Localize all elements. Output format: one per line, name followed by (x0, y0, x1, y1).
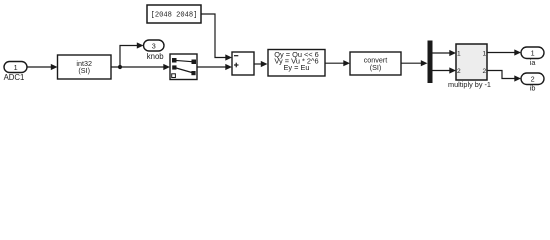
inport ADC1 (4, 62, 27, 73)
wire shift to convert (325, 62, 345, 64)
block convert (SI) (350, 52, 401, 75)
svg-text:ib: ib (530, 84, 536, 93)
wire switch to sum plus input (197, 66, 227, 68)
svg-text:knob: knob (147, 52, 165, 61)
svg-text:(SI): (SI) (370, 63, 382, 72)
shift arithmetic block (268, 50, 325, 77)
manual switch block (170, 54, 197, 80)
svg-text:1: 1 (482, 50, 486, 57)
wire int32 to switch (111, 66, 165, 68)
svg-text:multiply by -1: multiply by -1 (448, 80, 491, 89)
wire branch to knob (120, 46, 138, 68)
svg-text:Ey = Eu: Ey = Eu (283, 63, 309, 72)
demux (428, 41, 433, 84)
svg-text:(SI): (SI) (78, 66, 90, 75)
svg-text:2: 2 (482, 68, 486, 75)
wire constant to sum minus input (201, 14, 227, 58)
svg-text:2: 2 (457, 68, 461, 75)
sum (subtract) block (232, 52, 254, 75)
svg-text:ADC1: ADC1 (4, 73, 25, 82)
subsystem multiply by -1 (456, 44, 487, 80)
wire subsystem out2 to ib (487, 71, 516, 79)
wire sum to shift block (254, 63, 263, 65)
svg-text:2: 2 (531, 75, 535, 84)
wire convert to demux (401, 62, 422, 64)
outport knob (144, 40, 165, 51)
svg-text:1: 1 (457, 50, 461, 57)
svg-text:1: 1 (14, 63, 18, 72)
svg-text:ia: ia (530, 58, 537, 67)
junction dot (118, 65, 122, 69)
block int32 (SI) data type conversion (58, 55, 112, 79)
outport ia (521, 47, 544, 59)
svg-text:1: 1 (531, 49, 535, 58)
constant [2048 2048] (147, 5, 201, 23)
outport ib (521, 73, 544, 85)
wire subsystem out1 to ia (487, 52, 516, 54)
svg-text:[2048 2048]: [2048 2048] (151, 12, 198, 20)
wire demux out1 to subsystem in1 (433, 52, 451, 54)
wire demux out2 to subsystem in2 (433, 70, 451, 72)
wire ADC1 to int32 (27, 66, 52, 68)
svg-text:3: 3 (152, 41, 156, 50)
